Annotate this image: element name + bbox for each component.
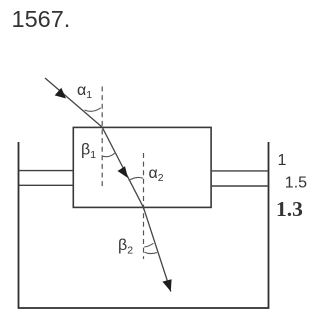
- incident ray arrowhead: [55, 88, 66, 99]
- svg-text:1.5: 1.5: [285, 174, 307, 191]
- liquid level line left lower: [19, 184, 74, 186]
- svg-text:1: 1: [278, 152, 287, 169]
- angle arc alpha2: [129, 177, 143, 180]
- liquid level line right lower: [211, 185, 268, 187]
- svg-text:1.3: 1.3: [276, 197, 303, 221]
- glass slab rectangle: [73, 127, 211, 207]
- arrowhead at end of ray: [162, 279, 171, 291]
- normal (dashed) at exit point: [143, 153, 145, 259]
- refracted ray below slab: [143, 207, 170, 291]
- refracted ray inside slab: [102, 127, 143, 207]
- angle arc beta2: [144, 243, 153, 247]
- liquid level line right upper: [211, 170, 268, 172]
- liquid level line left upper: [19, 170, 74, 172]
- angle arc beta1: [102, 153, 115, 157]
- angle arc beta2 lower stroke: [145, 252, 158, 253]
- normal (dashed) at entry point: [101, 87, 103, 187]
- arrowhead on ray inside slab: [118, 166, 129, 178]
- svg-text:1567.: 1567.: [12, 6, 71, 32]
- incident ray: [45, 78, 102, 127]
- container (tank) walls and bottom: [19, 142, 269, 308]
- angle arc alpha1: [85, 108, 101, 112]
